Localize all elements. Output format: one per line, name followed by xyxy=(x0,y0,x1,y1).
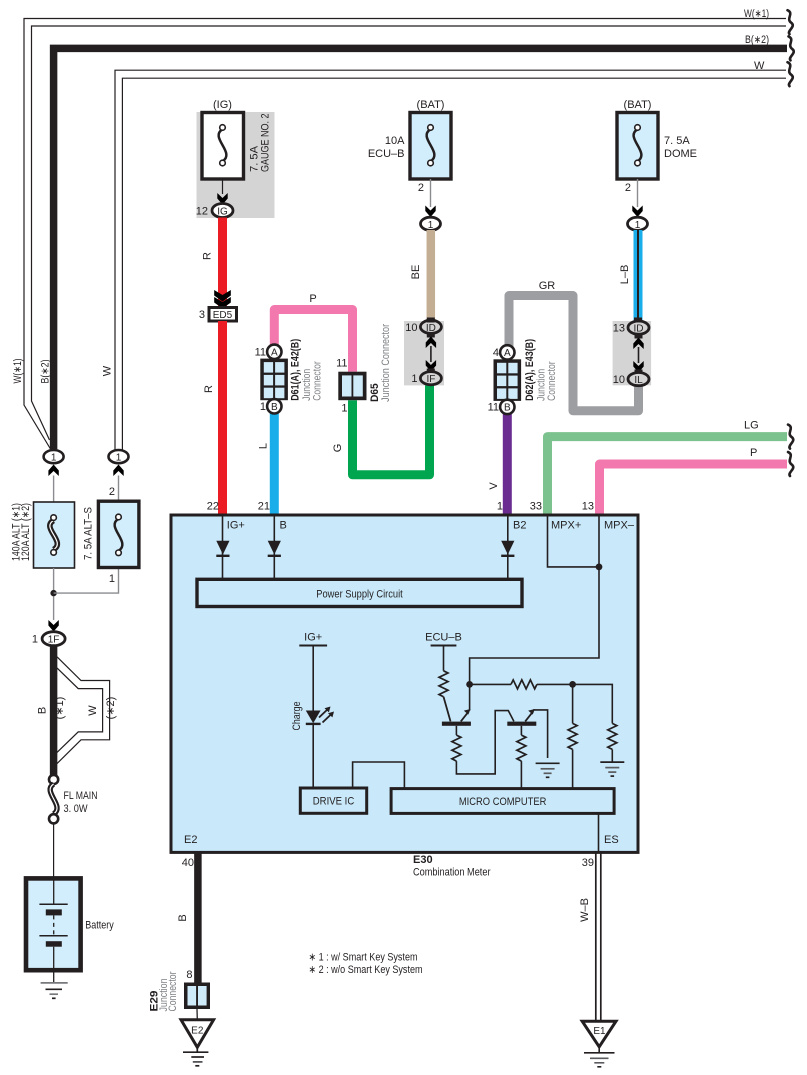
svg-text:39: 39 xyxy=(582,857,594,869)
continuation curl LG xyxy=(788,425,793,449)
svg-text:E2: E2 xyxy=(184,834,197,846)
svg-text:1: 1 xyxy=(32,634,38,646)
svg-text:10A: 10A xyxy=(385,135,405,147)
svg-text:B: B xyxy=(280,520,287,532)
horizontal resistor network xyxy=(470,680,573,689)
svg-text:Connector: Connector xyxy=(546,361,558,401)
svg-text:11: 11 xyxy=(488,402,499,414)
svg-text:(IG): (IG) xyxy=(213,99,232,111)
svg-text:W–B: W–B xyxy=(579,898,591,922)
wire between ID and IL xyxy=(638,347,640,363)
svg-text:13: 13 xyxy=(613,323,625,335)
svg-text:GAUGE NO. 2: GAUGE NO. 2 xyxy=(260,114,272,173)
node: oval 1 (ECU-B) xyxy=(421,217,441,231)
wire: fuse pin 2 to oval xyxy=(637,179,639,207)
node: oval ID pin 10 xyxy=(405,318,441,334)
wire between ID and IF xyxy=(430,346,432,362)
wire R4 to ground xyxy=(611,749,613,762)
wire B below 1F (thick black) xyxy=(50,646,58,777)
svg-text:1: 1 xyxy=(116,453,122,464)
diode IG+ xyxy=(216,541,229,556)
wire E29 to ground E2 xyxy=(196,1009,198,1020)
svg-text:1: 1 xyxy=(109,573,115,585)
node: oval IL pin 10 xyxy=(613,373,649,387)
svg-text:IG+: IG+ xyxy=(304,632,322,644)
ground bars E1 xyxy=(584,1048,615,1067)
svg-text:33: 33 xyxy=(530,501,542,513)
svg-text:1: 1 xyxy=(411,373,417,385)
svg-text:7. 5A: 7. 5A xyxy=(664,135,690,147)
svg-text:B(∗2): B(∗2) xyxy=(745,34,769,46)
wire: 140A ALT to node dot xyxy=(53,568,55,620)
svg-text:E2: E2 xyxy=(191,1026,204,1037)
wire dot2 to right resistor xyxy=(573,684,613,723)
wire GR (grey) D62-A to IL oval xyxy=(509,296,639,411)
wire LG (light green) to meter pin 33 xyxy=(548,437,788,515)
svg-text:P: P xyxy=(309,293,316,305)
IG+ internal power rail xyxy=(299,632,327,711)
wire IG+ to diode xyxy=(222,515,224,579)
battery xyxy=(26,878,81,970)
arrow down (IF) xyxy=(426,360,436,372)
svg-text:ES: ES xyxy=(604,834,619,846)
node: oval IG, pin 12 xyxy=(196,204,233,218)
svg-text:W: W xyxy=(87,705,99,716)
node: connector oval 1 (ALT-S) xyxy=(109,450,129,464)
svg-text:L: L xyxy=(258,443,270,449)
svg-text:W: W xyxy=(102,365,114,376)
wire W(*1) top/left (white wire drawn as double line) xyxy=(24,19,786,450)
wire B(*2) top/left thick black xyxy=(54,48,787,449)
svg-text:10: 10 xyxy=(405,322,417,334)
svg-text:8: 8 xyxy=(186,969,192,981)
svg-text:2: 2 xyxy=(418,182,424,194)
wire: battery to ground xyxy=(53,970,55,983)
svg-text:MPX–: MPX– xyxy=(604,520,635,532)
junction node dot xyxy=(50,590,56,596)
combination meter E30 box xyxy=(171,515,638,852)
svg-text:IG: IG xyxy=(217,207,228,218)
node dot MPX xyxy=(596,564,603,571)
svg-text:2: 2 xyxy=(625,182,631,194)
junction connector D62(A), E43(B) xyxy=(488,345,522,414)
transistor Q1 xyxy=(442,684,471,725)
wire micro computer to ES pin xyxy=(598,813,600,852)
svg-text:12: 12 xyxy=(196,206,208,218)
arrow down into oval xyxy=(632,206,642,218)
alternate wire fan outline (B (*1) W (*2)) xyxy=(57,657,110,764)
continuation curl W(*1) xyxy=(788,10,793,34)
svg-text:BE: BE xyxy=(410,265,422,280)
fuse 7.5A DOME xyxy=(617,113,658,180)
wire: oval to ALT-S fuse, pin 2 xyxy=(118,476,120,502)
svg-text:Power Supply Circuit: Power Supply Circuit xyxy=(316,588,403,600)
continuation curl P xyxy=(788,452,793,476)
node: connector oval 1 (ALT main) xyxy=(44,450,64,464)
wire drive ic to micro computer xyxy=(353,762,405,789)
double arrow into ED5 xyxy=(214,290,231,302)
junction connector block shading (ID/IL) xyxy=(613,321,652,385)
svg-text:11: 11 xyxy=(336,358,347,370)
svg-text:ID: ID xyxy=(426,323,436,334)
svg-text:E1: E1 xyxy=(593,1026,606,1037)
ground triangle E2 xyxy=(181,1020,214,1048)
wire R (red) IG oval to ED5 xyxy=(218,218,227,308)
svg-text:Combination Meter: Combination Meter xyxy=(413,867,491,879)
svg-text:1: 1 xyxy=(428,220,434,231)
svg-text:11: 11 xyxy=(255,347,266,359)
node: oval IF pin 1 xyxy=(411,372,441,386)
svg-text:G: G xyxy=(332,444,344,453)
wire: node dot to ALT-S fuse bottom xyxy=(54,568,119,594)
svg-text:IL: IL xyxy=(634,375,643,386)
wire: fuse pin 2 to oval xyxy=(430,179,432,207)
fusible link 140A ALT (*1) 120A ALT (*2) xyxy=(34,502,75,568)
wire P (pink) to meter pin 13 xyxy=(600,464,788,515)
svg-text:1F: 1F xyxy=(48,635,60,646)
svg-text:DOME: DOME xyxy=(664,148,697,160)
wire B to diode xyxy=(273,515,275,579)
svg-text:22: 22 xyxy=(207,501,219,513)
continuation curl W xyxy=(788,62,793,86)
junction connector E29 xyxy=(184,983,210,1010)
node: oval 1 (DOME) xyxy=(628,217,648,231)
wire R (red) ED5 to meter pin 22 xyxy=(218,321,227,515)
resistor R5 under Q1 and link to Q2 xyxy=(452,711,514,774)
transistor Q2 xyxy=(507,709,547,758)
svg-text:ECU–B: ECU–B xyxy=(425,632,462,644)
svg-text:D62(A), E43(B): D62(A), E43(B) xyxy=(524,339,536,401)
drive ic box xyxy=(300,788,366,813)
power supply circuit box xyxy=(197,579,522,606)
svg-text:ID: ID xyxy=(634,324,644,335)
svg-text:W: W xyxy=(754,60,765,72)
arrow down (IL) xyxy=(633,361,643,373)
svg-text:3. 0W: 3. 0W xyxy=(64,803,89,815)
svg-text:R: R xyxy=(202,252,214,260)
junction connector D61(A), E42(B) xyxy=(255,345,288,414)
fusible link FL MAIN 3.0W xyxy=(49,775,58,824)
fuse 10A ECU-B xyxy=(410,113,451,180)
svg-text:L–B: L–B xyxy=(619,265,631,285)
arrow down into oval 1F xyxy=(48,620,58,632)
svg-text:ECU–B: ECU–B xyxy=(368,148,405,160)
node dot 2 xyxy=(569,681,576,688)
node dot (MPX-/Q1) xyxy=(466,681,473,688)
junction connector D65 xyxy=(336,358,366,415)
svg-text:(BAT): (BAT) xyxy=(624,99,652,111)
svg-text:Junction Connector: Junction Connector xyxy=(380,324,392,402)
wire BE (beige) to ID oval xyxy=(427,230,436,321)
wire: oval 1 to 140A ALT fuse xyxy=(53,476,55,503)
node: oval ID pin 13 xyxy=(613,318,649,335)
svg-text:1: 1 xyxy=(341,403,347,415)
ground G1 xyxy=(536,763,560,777)
svg-text:V: V xyxy=(488,482,500,490)
svg-text:21: 21 xyxy=(258,501,270,513)
svg-text:3: 3 xyxy=(199,309,205,321)
svg-text:Connector: Connector xyxy=(167,971,179,1011)
wire B meter to E29 (thick black) xyxy=(194,852,202,982)
svg-text:Battery: Battery xyxy=(85,920,114,932)
svg-text:MPX+: MPX+ xyxy=(551,520,581,532)
wire: FL MAIN to battery xyxy=(53,824,55,879)
svg-text:B(∗2): B(∗2) xyxy=(40,360,52,384)
resistor (ECU-B) xyxy=(439,671,448,697)
svg-text:Charge: Charge xyxy=(291,702,303,731)
svg-text:D61(A), E42(B): D61(A), E42(B) xyxy=(290,339,302,401)
svg-text:(BAT): (BAT) xyxy=(417,99,445,111)
wire MPX- internal down to transistor area xyxy=(470,515,599,684)
svg-text:B: B xyxy=(504,403,511,414)
svg-text:ED5: ED5 xyxy=(213,310,233,321)
svg-text:1: 1 xyxy=(51,453,57,464)
svg-text:40: 40 xyxy=(182,857,194,869)
svg-text:DRIVE IC: DRIVE IC xyxy=(313,796,355,808)
svg-text:LG: LG xyxy=(744,420,759,432)
arrow down into oval xyxy=(425,206,435,218)
svg-text:FL MAIN: FL MAIN xyxy=(64,790,98,802)
svg-text:P: P xyxy=(750,447,757,459)
wire W top/left (double line) xyxy=(115,70,786,450)
resistor R4 xyxy=(608,723,617,749)
svg-text:W(∗1): W(∗1) xyxy=(12,359,24,384)
svg-text:B2: B2 xyxy=(513,520,526,532)
wire P (pink) D61-A to D65 xyxy=(274,310,352,372)
svg-text:∗ 1 : w/ Smart Key System: ∗ 1 : w/ Smart Key System xyxy=(309,952,418,964)
fuse 7.5A GAUGE NO.2 xyxy=(202,113,244,180)
svg-text:7. 5A ALT–S: 7. 5A ALT–S xyxy=(83,507,95,560)
svg-text:1: 1 xyxy=(635,220,641,231)
resistor R6 under Q2 to micro computer xyxy=(517,726,526,789)
arrow up (ID) xyxy=(427,334,435,338)
svg-text:4: 4 xyxy=(493,347,499,359)
wire L-B (blue/black) to ID oval xyxy=(634,230,643,321)
svg-text:Connector: Connector xyxy=(311,361,323,401)
svg-text:R: R xyxy=(203,385,215,393)
wire MPX+ internal xyxy=(548,515,600,567)
junction connector block shading (ID/IF) xyxy=(404,321,444,385)
svg-text:IG+: IG+ xyxy=(227,520,245,532)
svg-text:W(∗1): W(∗1) xyxy=(744,8,769,20)
svg-text:10: 10 xyxy=(613,374,625,386)
arrow up (ID right) xyxy=(635,335,643,339)
fuse 7.5A ALT-S xyxy=(98,501,138,567)
svg-text:2: 2 xyxy=(109,486,115,498)
wire L (blue) D61-B to meter pin 21 xyxy=(270,410,279,515)
svg-text:MICRO COMPUTER: MICRO COMPUTER xyxy=(459,796,547,808)
svg-text:B: B xyxy=(177,914,189,921)
svg-text:1: 1 xyxy=(260,401,266,413)
wire B2 to diode xyxy=(507,515,509,579)
svg-text:B: B xyxy=(271,402,278,413)
svg-text:IF: IF xyxy=(426,374,435,385)
arrow up into oval 1 (ALT-S) xyxy=(113,465,123,477)
LED charge xyxy=(306,707,334,789)
wire G (green) D65 to IF oval xyxy=(353,384,430,475)
wire W-B (double line) to E1 xyxy=(596,852,601,1021)
svg-text:A: A xyxy=(504,348,511,359)
ground below battery xyxy=(41,983,68,998)
micro computer box xyxy=(391,789,614,814)
arrow down into IG oval xyxy=(217,193,227,205)
diode B xyxy=(268,541,281,556)
relay block shading (GAUGE NO.2) xyxy=(197,112,275,218)
ground G2 xyxy=(600,762,624,776)
svg-text:13: 13 xyxy=(582,501,594,513)
ground triangle E1 xyxy=(582,1021,616,1047)
svg-text:∗ 2 : w/o Smart Key System: ∗ 2 : w/o Smart Key System xyxy=(309,964,423,976)
ground bars E2 xyxy=(183,1049,208,1066)
diode B2 xyxy=(501,541,514,556)
svg-text:E30: E30 xyxy=(413,854,433,866)
svg-text:B: B xyxy=(37,707,49,714)
svg-text:1: 1 xyxy=(497,501,503,513)
svg-text:120A ALT (∗2): 120A ALT (∗2) xyxy=(20,503,32,561)
svg-text:(∗2): (∗2) xyxy=(105,697,117,720)
connector ED5, pin 3 xyxy=(199,308,237,322)
wire dot2 down through resistor R3 to micro computer xyxy=(572,684,574,723)
ECU-B internal power rail xyxy=(425,632,462,671)
node: connector oval 1F, pin 1 xyxy=(32,632,65,646)
svg-text:A: A xyxy=(271,348,278,359)
svg-text:GR: GR xyxy=(539,280,556,292)
arrow up into oval 1 xyxy=(48,465,58,477)
wire: fuse to IG oval xyxy=(222,179,224,194)
wire V (purple) D62-B to meter pin 1 xyxy=(503,410,512,515)
svg-text:(∗1): (∗1) xyxy=(54,697,66,720)
continuation curl B(*2) xyxy=(789,36,794,60)
